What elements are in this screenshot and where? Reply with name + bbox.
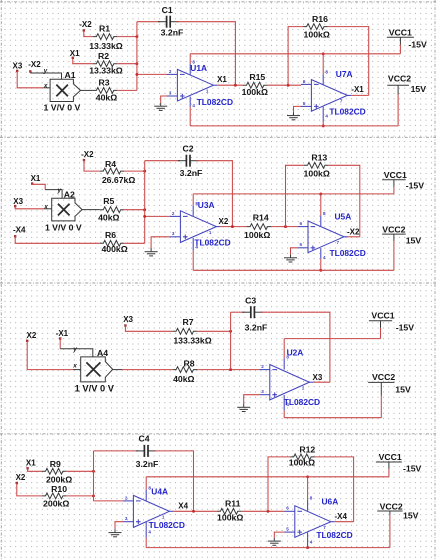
U7A V- pin wire to VCC2 rail bbox=[322, 107, 325, 128]
page border right bbox=[434, 0, 436, 560]
node X3 (input to A1 x) bbox=[13, 62, 23, 73]
wire R6 to node N2 bbox=[124, 242, 145, 244]
wire -X2 to A1 y pin bbox=[30, 71, 61, 79]
svg-text:U2A: U2A bbox=[287, 347, 304, 357]
wire N2 to C2 bbox=[145, 160, 180, 162]
capacitor C2 bbox=[178, 144, 203, 178]
svg-text:R8: R8 bbox=[183, 358, 194, 368]
resistor R15 bbox=[242, 72, 268, 97]
svg-text:X2: X2 bbox=[219, 217, 229, 226]
wire R12 right leg to -X4 output bbox=[315, 457, 354, 522]
capacitor C3 bbox=[242, 296, 267, 333]
svg-text:A4: A4 bbox=[97, 348, 108, 358]
wire -X2 to R1 bbox=[84, 30, 93, 36]
svg-text:y: y bbox=[57, 187, 62, 194]
svg-text:15V: 15V bbox=[411, 84, 427, 94]
page separator 1 bbox=[0, 136, 436, 138]
svg-text:1: 1 bbox=[302, 385, 305, 390]
svg-text:1 V/V 0 V: 1 V/V 0 V bbox=[44, 103, 81, 113]
wire A1 output to R3 bbox=[81, 89, 93, 91]
page separator 2 bbox=[0, 282, 436, 284]
svg-text:U5A: U5A bbox=[335, 211, 352, 221]
svg-text:TL082CD: TL082CD bbox=[197, 97, 233, 107]
VCC2 supply row3 bbox=[368, 372, 411, 418]
U1A V- pin wire to VCC2 rail bbox=[189, 97, 191, 126]
svg-text:y: y bbox=[72, 346, 77, 353]
wire R3 to node N1 bbox=[117, 89, 137, 91]
resistor R16 bbox=[303, 14, 330, 39]
svg-text:TL082CD: TL082CD bbox=[284, 397, 320, 407]
svg-text:6: 6 bbox=[300, 221, 303, 226]
wire R7 to node N3 bbox=[197, 330, 232, 333]
svg-text:C2: C2 bbox=[182, 144, 193, 154]
pin label y A4 bbox=[72, 346, 77, 353]
resistor R5 bbox=[98, 196, 124, 222]
svg-text:4: 4 bbox=[325, 113, 328, 118]
wire A2 output to R5 bbox=[82, 209, 100, 211]
svg-text:X3: X3 bbox=[13, 62, 23, 71]
svg-text:R9: R9 bbox=[50, 459, 61, 469]
svg-text:C4: C4 bbox=[138, 434, 149, 444]
wire X2 to A4 x pin bbox=[27, 341, 80, 370]
svg-text:C1: C1 bbox=[162, 5, 173, 15]
VCC2 supply row1 bbox=[387, 73, 426, 126]
page border top bbox=[0, 1, 436, 3]
page border left bbox=[0, 0, 2, 560]
svg-text:y: y bbox=[43, 68, 48, 75]
wire R15 to U7A inverting input bbox=[267, 84, 301, 87]
node label X1 at U1A output bbox=[217, 75, 227, 84]
U1A V+ pin wire to VCC1 rail bbox=[189, 54, 191, 75]
U6A V- pin wire to VCC2 rail bbox=[306, 532, 309, 549]
wire X1 to R2 bbox=[73, 58, 93, 64]
svg-text:3.2nF: 3.2nF bbox=[180, 168, 203, 178]
svg-text:R16: R16 bbox=[312, 14, 328, 24]
svg-text:A1: A1 bbox=[64, 70, 75, 80]
svg-text:26.67kΩ: 26.67kΩ bbox=[102, 175, 136, 185]
multiplier A2 bbox=[45, 189, 82, 232]
page separator 3 bbox=[0, 433, 436, 435]
wire C1 to X1 output node bbox=[177, 22, 236, 85]
svg-text:R5: R5 bbox=[103, 196, 114, 206]
svg-text:-X1: -X1 bbox=[351, 85, 364, 94]
svg-text:3: 3 bbox=[169, 90, 172, 95]
resistor R14 bbox=[244, 212, 271, 240]
wire C2 to X2 output node bbox=[196, 161, 232, 227]
svg-text:2: 2 bbox=[169, 69, 172, 74]
U5A V+ pin wire to VCC1 rail bbox=[319, 192, 322, 226]
svg-text:100kΩ: 100kΩ bbox=[217, 512, 243, 522]
wire U2A output bbox=[313, 381, 330, 383]
resistor R9 bbox=[42, 459, 72, 484]
multiplier A1 bbox=[44, 70, 81, 113]
wire R13 right leg to -X2 output bbox=[328, 165, 359, 237]
svg-text:VCC1: VCC1 bbox=[379, 452, 402, 462]
node label X4 at U4A output bbox=[178, 502, 188, 511]
svg-text:X3: X3 bbox=[123, 315, 133, 324]
node -X1 (input to A4 y) bbox=[56, 329, 69, 340]
svg-text:X4: X4 bbox=[178, 502, 188, 511]
wire R2 to node N1 bbox=[117, 62, 138, 65]
svg-text:X3: X3 bbox=[13, 197, 23, 206]
op-amp U5A bbox=[298, 211, 366, 260]
svg-text:VCC1: VCC1 bbox=[371, 310, 394, 320]
VCC2 rail row2 bbox=[193, 269, 394, 271]
wire X2 to R10 bbox=[17, 483, 42, 496]
wire A4 output to R8 bbox=[113, 369, 173, 371]
svg-text:4: 4 bbox=[323, 255, 326, 260]
svg-text:7: 7 bbox=[323, 525, 326, 530]
pin label y A2 bbox=[57, 187, 62, 194]
wire R14 to U5A inverting input bbox=[271, 225, 298, 228]
svg-text:400kΩ: 400kΩ bbox=[101, 244, 127, 254]
svg-text:TL082CD: TL082CD bbox=[329, 107, 365, 117]
wire R8 to U2A inverting input bbox=[197, 368, 259, 371]
svg-text:4: 4 bbox=[192, 103, 195, 108]
VCC1 rail row3 bbox=[284, 338, 380, 340]
ground at U3A non-inverting input bbox=[145, 237, 170, 256]
svg-text:40kΩ: 40kΩ bbox=[98, 212, 119, 222]
svg-text:100kΩ: 100kΩ bbox=[244, 230, 270, 240]
svg-text:1: 1 bbox=[162, 515, 165, 520]
resistor R12 bbox=[289, 444, 316, 467]
wire node N4 vertical bbox=[93, 451, 95, 501]
node label X3 at U2A output bbox=[313, 373, 323, 382]
wire X3 to R7 bbox=[125, 326, 172, 332]
svg-text:x: x bbox=[43, 203, 48, 210]
svg-text:1 V/V 0 V: 1 V/V 0 V bbox=[45, 223, 82, 233]
VCC1 supply row3 bbox=[369, 310, 414, 338]
wire X3 to A1 x pin bbox=[17, 71, 50, 88]
resistor R11 bbox=[217, 499, 243, 523]
svg-text:x: x bbox=[43, 82, 48, 89]
U3A V+ pin wire to VCC1 rail bbox=[192, 194, 194, 216]
svg-text:-X2: -X2 bbox=[81, 150, 94, 159]
node label -X4 at U6A output bbox=[335, 512, 348, 521]
svg-text:13.33kΩ: 13.33kΩ bbox=[89, 41, 123, 51]
svg-text:X1: X1 bbox=[31, 174, 41, 183]
pin label x A1 bbox=[43, 82, 48, 89]
svg-text:7: 7 bbox=[337, 240, 340, 245]
svg-text:TL082CD: TL082CD bbox=[149, 520, 185, 530]
svg-text:40kΩ: 40kΩ bbox=[96, 93, 117, 103]
ground at U7A non-inverting input bbox=[287, 106, 301, 119]
resistor R7 bbox=[173, 317, 212, 345]
U2A V- pin wire to VCC2 rail bbox=[283, 395, 285, 418]
node label -X2 at U5A output bbox=[347, 227, 360, 236]
svg-text:R7: R7 bbox=[182, 317, 193, 327]
node X1 (input to A2 y) bbox=[31, 174, 41, 185]
VCC1 rail row4 bbox=[146, 476, 389, 478]
svg-text:4: 4 bbox=[310, 540, 313, 545]
VCC2 rail row1 bbox=[190, 125, 398, 127]
op-amp U4A bbox=[123, 485, 185, 534]
svg-text:X1: X1 bbox=[217, 75, 227, 84]
svg-text:100kΩ: 100kΩ bbox=[304, 169, 330, 179]
node -X2 (input to A1 y) bbox=[28, 60, 41, 73]
svg-text:5: 5 bbox=[300, 242, 303, 247]
wire N1 to U1A inverting input bbox=[135, 73, 167, 76]
svg-text:-X4: -X4 bbox=[335, 512, 348, 521]
wire N4 to U4A inverting input bbox=[94, 500, 124, 502]
svg-text:8: 8 bbox=[310, 496, 313, 501]
svg-text:-X4: -X4 bbox=[13, 226, 26, 235]
svg-text:-X2: -X2 bbox=[79, 20, 92, 29]
svg-text:200kΩ: 200kΩ bbox=[43, 499, 69, 509]
svg-text:R13: R13 bbox=[311, 152, 327, 162]
svg-text:3.2nF: 3.2nF bbox=[136, 459, 159, 469]
node -X2 (input to R4) bbox=[81, 150, 94, 161]
resistor R3 bbox=[93, 78, 117, 103]
wire U1A output to R15 bbox=[217, 84, 243, 87]
svg-text:X2: X2 bbox=[16, 473, 26, 482]
svg-text:40kΩ: 40kΩ bbox=[173, 374, 194, 384]
VCC1 rail row1 bbox=[190, 53, 400, 55]
ground at U5A non-inverting input bbox=[284, 248, 298, 262]
node -X4 (input to R6) bbox=[13, 226, 26, 238]
svg-text:1 V/V 0 V: 1 V/V 0 V bbox=[75, 383, 115, 393]
svg-text:R6: R6 bbox=[105, 230, 116, 240]
op-amp U2A bbox=[259, 347, 320, 407]
svg-text:U7A: U7A bbox=[336, 69, 353, 79]
resistor R4 bbox=[100, 159, 136, 185]
svg-text:5: 5 bbox=[286, 527, 289, 532]
svg-text:VCC2: VCC2 bbox=[382, 225, 405, 235]
svg-text:-X2: -X2 bbox=[28, 60, 41, 69]
wire X1 to A2 y pin bbox=[32, 184, 62, 199]
node X1 (input to R2) bbox=[70, 49, 80, 59]
resistor R8 bbox=[173, 358, 197, 384]
svg-text:A2: A2 bbox=[64, 189, 75, 199]
U3A V- pin wire to VCC2 rail bbox=[192, 238, 194, 270]
U7A V+ pin wire to VCC1 rail bbox=[322, 52, 325, 84]
svg-text:-15V: -15V bbox=[396, 322, 415, 332]
svg-text:133.33kΩ: 133.33kΩ bbox=[173, 336, 211, 346]
svg-text:R14: R14 bbox=[253, 212, 269, 222]
wire R5 to node N2 bbox=[124, 208, 146, 211]
svg-text:R4: R4 bbox=[105, 159, 116, 169]
svg-text:-X2: -X2 bbox=[347, 227, 360, 236]
VCC2 rail row4 bbox=[146, 547, 390, 549]
VCC2 supply row4 bbox=[377, 502, 418, 548]
svg-text:15V: 15V bbox=[406, 235, 422, 245]
op-amp U6A bbox=[284, 496, 352, 545]
pin label x A2 bbox=[43, 203, 48, 210]
node X2 (input to R10) bbox=[16, 473, 26, 484]
svg-text:X1: X1 bbox=[70, 49, 80, 58]
svg-text:3: 3 bbox=[261, 389, 264, 394]
svg-text:2: 2 bbox=[261, 364, 264, 369]
wire C3 to X3 output node bbox=[261, 312, 330, 382]
svg-text:1: 1 bbox=[206, 88, 209, 93]
svg-text:X2: X2 bbox=[27, 331, 37, 340]
svg-text:5: 5 bbox=[303, 101, 306, 106]
svg-text:3: 3 bbox=[172, 231, 175, 236]
svg-text:100kΩ: 100kΩ bbox=[242, 87, 268, 97]
svg-text:VCC2: VCC2 bbox=[388, 73, 411, 83]
VCC2 supply row2 bbox=[382, 225, 421, 271]
U2A V+ pin wire to VCC1 rail bbox=[283, 339, 285, 370]
wire -X1 to A4 y pin bbox=[60, 339, 93, 357]
svg-text:6: 6 bbox=[286, 506, 289, 511]
VCC1 rail row2 bbox=[193, 193, 394, 195]
resistor R10 bbox=[42, 484, 69, 509]
svg-text:R3: R3 bbox=[98, 78, 109, 88]
svg-text:3.2nF: 3.2nF bbox=[245, 323, 268, 333]
VCC1 supply row2 bbox=[382, 170, 424, 194]
U4A V+ pin wire to VCC1 rail bbox=[145, 477, 147, 501]
svg-text:6: 6 bbox=[303, 79, 306, 84]
svg-text:4: 4 bbox=[148, 530, 151, 535]
VCC1 supply row1 bbox=[387, 27, 427, 53]
svg-text:7: 7 bbox=[340, 99, 343, 104]
wire -X2 to R4 bbox=[84, 160, 100, 171]
svg-text:-15V: -15V bbox=[406, 181, 425, 191]
wire U3A output to R14 bbox=[220, 225, 246, 228]
ground at U6A non-inverting input bbox=[268, 532, 285, 545]
wire -X4 to R6 bbox=[15, 236, 100, 243]
svg-text:U3A: U3A bbox=[198, 200, 215, 210]
svg-text:TL082CD: TL082CD bbox=[316, 530, 352, 540]
wire R13 left leg bbox=[286, 165, 305, 226]
svg-text:R12: R12 bbox=[299, 444, 315, 454]
svg-text:R1: R1 bbox=[99, 23, 110, 33]
wire N2 to U3A inverting input bbox=[143, 215, 170, 218]
node X1 (input to R9) bbox=[26, 458, 36, 469]
svg-text:R15: R15 bbox=[249, 72, 265, 82]
pin label y A1 bbox=[43, 68, 48, 75]
ground at U4A non-inverting input bbox=[109, 522, 124, 537]
svg-text:R11: R11 bbox=[225, 499, 241, 509]
wire node N3 vertical bbox=[230, 312, 232, 369]
svg-text:U6A: U6A bbox=[322, 496, 339, 506]
svg-text:VCC2: VCC2 bbox=[372, 372, 395, 382]
U4A V- pin wire to VCC2 rail bbox=[145, 522, 147, 548]
wire node N2 vertical bbox=[144, 161, 146, 244]
multiplier A4 bbox=[75, 348, 115, 393]
wire U5A output bbox=[348, 236, 360, 238]
svg-text:X1: X1 bbox=[26, 458, 36, 467]
resistor R1 bbox=[89, 23, 123, 50]
U5A V- pin wire to VCC2 rail bbox=[319, 248, 322, 272]
ground at U2A non-inverting input bbox=[237, 395, 259, 412]
wire R16 left leg bbox=[288, 27, 303, 86]
svg-text:3.2nF: 3.2nF bbox=[161, 27, 184, 37]
wire N4 to C4 bbox=[94, 450, 139, 452]
svg-text:U4A: U4A bbox=[151, 487, 168, 497]
svg-text:8: 8 bbox=[325, 70, 328, 75]
node X3 (input to A2 x) bbox=[13, 197, 23, 207]
svg-text:13.33kΩ: 13.33kΩ bbox=[89, 66, 123, 76]
wire R9 to node N4 bbox=[66, 470, 95, 473]
svg-text:1: 1 bbox=[209, 230, 212, 235]
wire R1 to node N1 bbox=[117, 35, 138, 38]
ground at U1A non-inverting input bbox=[154, 96, 167, 110]
op-amp U3A bbox=[170, 200, 231, 250]
wire X3 to A2 x pin bbox=[15, 206, 52, 209]
wire C4 to X4 output node bbox=[154, 451, 193, 511]
svg-text:TL082CD: TL082CD bbox=[330, 248, 366, 258]
svg-text:-X1: -X1 bbox=[56, 329, 69, 338]
svg-text:200kΩ: 200kΩ bbox=[46, 474, 72, 484]
wire U7A output bbox=[351, 94, 368, 96]
pin label x A4 bbox=[72, 363, 77, 370]
wire R4 to node N2 bbox=[124, 170, 146, 173]
svg-text:VCC2: VCC2 bbox=[380, 502, 403, 512]
svg-text:x: x bbox=[72, 363, 77, 370]
svg-text:3: 3 bbox=[125, 516, 128, 521]
wire N3 to C3 bbox=[231, 311, 245, 313]
U6A V+ pin wire to VCC1 rail bbox=[306, 475, 309, 510]
svg-text:-15V: -15V bbox=[408, 39, 427, 49]
svg-text:TL082CD: TL082CD bbox=[194, 238, 230, 248]
svg-text:R2: R2 bbox=[98, 51, 109, 61]
wire R12 left leg bbox=[268, 457, 290, 511]
node X3 (input to R7) bbox=[123, 315, 133, 327]
wire R11 to U6A inverting input bbox=[241, 510, 284, 513]
svg-text:U1A: U1A bbox=[190, 63, 207, 73]
svg-text:15V: 15V bbox=[395, 384, 411, 394]
svg-text:-15V: -15V bbox=[403, 463, 422, 473]
node label X2 at U3A output bbox=[219, 217, 229, 226]
wire R16 right leg to -X1 output bbox=[328, 27, 369, 96]
svg-text:8: 8 bbox=[323, 211, 326, 216]
wire U6A output bbox=[335, 521, 354, 523]
node X2 (input to A4 x) bbox=[26, 331, 37, 342]
capacitor C1 bbox=[158, 5, 183, 37]
wire X1 to R9 bbox=[28, 468, 42, 471]
wire N1 to C1 bbox=[137, 21, 160, 23]
svg-text:VCC1: VCC1 bbox=[384, 170, 407, 180]
capacitor C4 bbox=[136, 434, 159, 469]
resistor R13 bbox=[304, 152, 330, 178]
wire R10 to node N4 bbox=[66, 494, 95, 497]
VCC1 supply row4 bbox=[376, 452, 422, 477]
node label -X1 at U7A output bbox=[351, 85, 364, 94]
svg-text:2: 2 bbox=[172, 211, 175, 216]
resistor R2 bbox=[89, 51, 123, 76]
svg-text:100kΩ: 100kΩ bbox=[304, 29, 330, 39]
wire U4A output to R11 bbox=[173, 510, 217, 513]
VCC2 rail row3 bbox=[284, 417, 381, 419]
svg-text:R10: R10 bbox=[51, 484, 67, 494]
svg-text:15V: 15V bbox=[403, 510, 419, 520]
resistor R6 bbox=[100, 230, 128, 254]
op-amp U1A bbox=[167, 59, 233, 108]
svg-text:2: 2 bbox=[125, 495, 128, 500]
svg-text:C3: C3 bbox=[245, 296, 256, 306]
node -X2 (input to R1) bbox=[79, 20, 92, 31]
op-amp U7A bbox=[301, 69, 366, 119]
svg-text:100kΩ: 100kΩ bbox=[289, 458, 315, 468]
svg-text:VCC1: VCC1 bbox=[389, 27, 412, 37]
wire node N1 vertical bbox=[136, 22, 138, 91]
svg-text:X3: X3 bbox=[313, 373, 323, 382]
